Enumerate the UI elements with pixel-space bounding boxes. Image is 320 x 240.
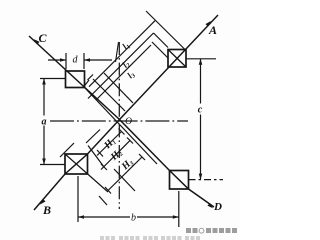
dimension line c — [200, 59, 202, 180]
arrowhead a bottom — [42, 159, 46, 165]
label l1 — [120, 40, 132, 52]
arrowhead a top — [42, 79, 46, 85]
arrowhead d left — [60, 58, 66, 62]
extension line above top-left stake right corner — [83, 53, 85, 69]
edge segment near stake B (2) — [86, 130, 100, 144]
arrowhead b left — [78, 215, 84, 219]
svg-text:B: B — [42, 203, 51, 217]
trench edge line along axis C-D — [85, 88, 158, 165]
dimension line d left part — [48, 59, 66, 61]
dimension line H2 — [101, 141, 130, 170]
svg-text:a: a — [42, 117, 47, 128]
arrowhead c top — [199, 59, 203, 65]
extension below bottom-right stake — [178, 191, 180, 227]
tick at end of H1 — [119, 129, 125, 135]
label l2 — [120, 59, 132, 71]
stake square bottom-right — [170, 171, 189, 190]
arrowhead on ray C — [33, 38, 40, 45]
arrowhead c bottom — [199, 174, 203, 180]
arrowhead on ray B — [39, 199, 46, 206]
stake square top-right (crossed) — [168, 50, 186, 68]
watermark line 1 (glyph blocks) — [186, 228, 237, 233]
label d — [70, 53, 80, 64]
leader from top-left stake — [40, 78, 66, 80]
svg-text:O: O — [125, 117, 132, 127]
dimension line l2 along axis A — [88, 33, 154, 99]
dimension line H1 — [97, 132, 122, 156]
tick at end of H2 — [127, 138, 133, 144]
axis ray A-B — [34, 15, 218, 210]
label l3 — [125, 69, 137, 81]
label H2 — [108, 147, 124, 163]
edge segment near stake B (1) — [60, 143, 74, 157]
tick near stake C (2) — [84, 80, 90, 87]
short edge mark below B stake — [99, 196, 107, 205]
cross diagonal of top-right stake — [168, 50, 186, 68]
extension segment left of H dimension lines — [88, 146, 104, 168]
trench edge lower segment along C-D — [114, 169, 135, 191]
stake square top-left — [66, 71, 85, 88]
extension below bottom-left stake — [77, 176, 79, 222]
dimension line a — [43, 79, 45, 165]
tick at start of H2 — [101, 164, 107, 170]
svg-text:b: b — [131, 213, 136, 224]
tick near stake C (1) — [88, 75, 94, 81]
svg-text:C: C — [38, 31, 47, 45]
dimension line b — [78, 216, 179, 218]
tick at start of H1 — [97, 150, 103, 157]
dimension line l1 along axis A — [89, 21, 155, 87]
axis ray C — [29, 36, 120, 120]
tick at end of H3 — [139, 154, 145, 160]
label H3 — [119, 157, 135, 173]
label c — [197, 104, 205, 115]
extension tick line at stake A (inner) — [154, 33, 169, 48]
diagonal of bottom-left stake extended (extension line for H dims) — [65, 154, 108, 192]
extension tick line at stake A (outer) — [146, 11, 186, 51]
dim line N1 parallel to C — [93, 79, 125, 111]
horizontal centerline through O — [50, 120, 188, 122]
watermark line 2 (glyph blocks) — [100, 236, 200, 240]
dimension line d right part — [84, 59, 112, 61]
svg-text:c: c — [198, 105, 203, 116]
leader from bottom-right stake — [189, 179, 224, 181]
small tick near vertical centerline — [116, 42, 119, 62]
label b — [130, 212, 137, 221]
leader from bottom-left stake — [40, 164, 65, 166]
leader from top-right stake — [186, 58, 216, 60]
tick at start of H3 — [105, 187, 111, 194]
label H1 — [102, 136, 118, 152]
svg-text:A: A — [208, 23, 217, 37]
extension line above top-left stake left corner — [65, 53, 67, 69]
arrowhead on ray A — [205, 20, 212, 27]
svg-text:D: D — [213, 201, 222, 213]
label a — [41, 116, 48, 126]
arrowhead on ray D — [207, 203, 214, 210]
axis ray D — [120, 120, 215, 208]
arrowhead b right — [173, 215, 179, 219]
vertical centerline through O — [118, 42, 120, 209]
extension tick of l3 at stake A edge — [152, 42, 168, 58]
dim line N2 parallel to C — [104, 73, 133, 103]
dimension line H3 — [108, 157, 142, 191]
arrowhead d right — [84, 58, 90, 62]
dimension line l3 along axis A — [96, 45, 151, 100]
stake square bottom-left — [65, 154, 88, 174]
